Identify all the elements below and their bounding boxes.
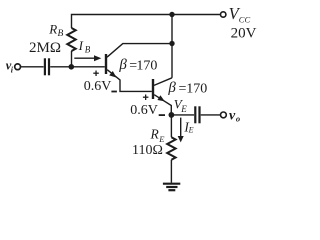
wire: VCC power rail xyxy=(72,15,221,29)
label I_E xyxy=(183,120,193,135)
label beta=170 (Q1) xyxy=(118,57,157,73)
capacitor C1 (input coupling) xyxy=(44,58,50,75)
svg-text:170: 170 xyxy=(136,58,157,73)
svg-text:0.6V: 0.6V xyxy=(84,79,112,94)
wire: capacitor C1 to Q1 base through node A xyxy=(50,66,105,68)
label V_E xyxy=(174,97,187,115)
plus sign Q2 xyxy=(143,95,149,101)
svg-text:2MΩ: 2MΩ xyxy=(29,40,61,56)
terminal V_CC xyxy=(221,12,226,17)
junction dot on rail xyxy=(169,12,174,17)
svg-text:=: = xyxy=(179,82,187,97)
label I_B xyxy=(78,38,91,55)
wire: RE bottom to ground xyxy=(170,160,172,183)
svg-text:R: R xyxy=(48,21,57,36)
svg-text:I: I xyxy=(78,38,84,53)
svg-text:β: β xyxy=(118,57,127,73)
node V_E junction dot xyxy=(169,112,175,118)
label R_E xyxy=(150,127,166,144)
svg-text:E: E xyxy=(180,104,187,114)
node A junction dot xyxy=(69,64,75,70)
transistor Q2 emitter xyxy=(154,95,171,115)
terminal v_i xyxy=(15,64,21,70)
terminal v_o xyxy=(221,112,227,118)
transistor Q1 collector xyxy=(107,44,172,58)
svg-text:o: o xyxy=(236,114,240,124)
minus sign Q2 xyxy=(159,114,165,116)
wire: VE node down to RE xyxy=(170,115,172,137)
svg-text:0.6V: 0.6V xyxy=(130,103,158,118)
wire: capacitor C2 to vo terminal xyxy=(201,114,221,116)
svg-text:β: β xyxy=(167,80,176,96)
junction dot collector node xyxy=(169,41,174,46)
transistor Q1 emitter xyxy=(107,70,152,92)
label v_o xyxy=(229,109,240,124)
resistor R_E xyxy=(167,137,175,160)
svg-text:110Ω: 110Ω xyxy=(132,143,163,158)
svg-text:E: E xyxy=(188,126,194,135)
wire: RB bottom to node A xyxy=(71,51,73,67)
svg-text:170: 170 xyxy=(186,82,207,97)
transistor Q2 emitter arrow xyxy=(157,95,164,101)
transistor Q2 base bar xyxy=(152,79,154,99)
svg-text:B: B xyxy=(85,45,91,55)
svg-text:20V: 20V xyxy=(231,25,257,41)
label v_i xyxy=(6,59,14,75)
wire: vertical drop from rail to Q1/Q2 collectors xyxy=(171,15,173,78)
wire: VE node to capacitor C2 xyxy=(171,114,194,116)
transistor Q1 base bar xyxy=(105,54,107,74)
ground xyxy=(163,184,180,191)
current arrow I_B xyxy=(74,55,101,61)
svg-text:CC: CC xyxy=(239,14,251,24)
svg-text:B: B xyxy=(58,29,64,39)
resistor R_B xyxy=(67,28,75,51)
minus sign Q1 xyxy=(111,91,117,93)
plus sign Q1 xyxy=(93,71,99,77)
svg-text:R: R xyxy=(150,127,160,142)
transistor Q1 emitter arrow xyxy=(109,71,116,78)
label R_B xyxy=(48,21,63,39)
label beta=170 (Q2) xyxy=(167,80,207,96)
wire: vi terminal to capacitor C1 xyxy=(21,66,44,68)
transistor Q2 collector xyxy=(154,78,172,86)
capacitor C2 (output coupling) xyxy=(194,106,200,123)
current arrow I_E xyxy=(178,118,184,143)
label V_CC xyxy=(229,4,251,25)
